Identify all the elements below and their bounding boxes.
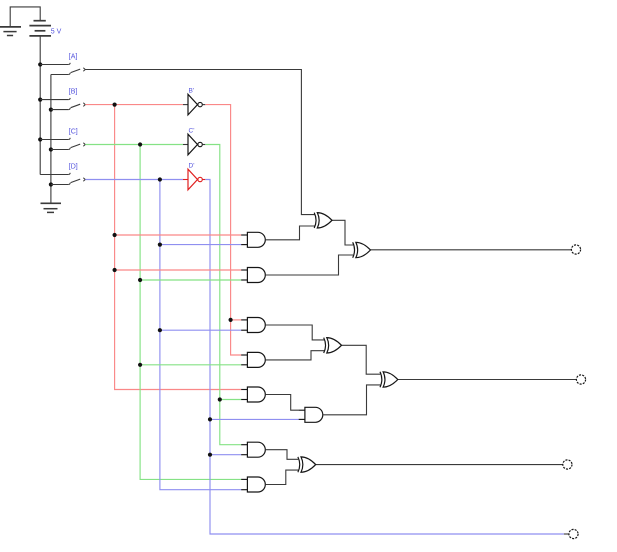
- wire XOR1 out to XOR2: [332, 220, 353, 245]
- node bus-A: [38, 62, 42, 66]
- wire C' (green) vertical: [205, 145, 241, 445]
- battery V1 5V: [29, 21, 51, 36]
- wire B (red) to inverter: [85, 104, 183, 106]
- wire AND6 out to XOR4: [323, 385, 380, 415]
- inverter C': [183, 134, 205, 155]
- wire XOR5 out to T3: [316, 464, 563, 466]
- wire XOR2 out to T1: [371, 249, 572, 251]
- AND gate U4: [247, 352, 265, 367]
- switch D: [40, 173, 85, 185]
- ground GND2: [41, 203, 62, 212]
- inverter D': [183, 169, 205, 190]
- node blue-AND7: [208, 453, 212, 457]
- switch B: [40, 98, 85, 110]
- AND gate U2: [247, 268, 265, 283]
- wire AND7 out to XOR5: [265, 450, 298, 460]
- AND gate U7: [247, 442, 265, 457]
- svg-text:B': B': [189, 87, 195, 94]
- wire red to AND1: [115, 234, 242, 236]
- wire AND2 out to XOR2: [265, 255, 353, 275]
- wire C vertical: [140, 145, 241, 480]
- wire blue D' to AND7: [210, 454, 241, 456]
- wire green to AND4: [140, 364, 241, 366]
- svg-text:[C]: [C]: [69, 129, 78, 136]
- node bus-C: [38, 137, 42, 141]
- node green-AND5: [218, 397, 222, 401]
- wire B vertical: [115, 105, 242, 390]
- ground GND1: [0, 27, 21, 36]
- switch A: [40, 63, 85, 75]
- svg-text:D': D': [189, 162, 195, 169]
- node red-AND2: [113, 268, 117, 272]
- pin stubs left AND column: [241, 235, 306, 490]
- svg-text:C': C': [189, 127, 195, 134]
- wire AND1 out to XOR1: [265, 226, 314, 240]
- wire A (black) to XOR1: [85, 70, 314, 215]
- wire ground bus: [50, 75, 52, 204]
- wire D vertical: [160, 180, 242, 490]
- AND gate U8: [247, 477, 265, 492]
- node green-AND2: [138, 278, 142, 282]
- terminal T2: [576, 375, 585, 384]
- node B-junction: [113, 103, 117, 107]
- wire blue to AND3: [160, 329, 242, 331]
- terminal T4: [569, 529, 578, 538]
- node gbus-D: [49, 182, 53, 186]
- wire XOR4 out to T2: [398, 379, 577, 381]
- wire battery to ground: [10, 7, 40, 27]
- node green-AND4: [138, 363, 142, 367]
- wire blue to AND1: [160, 244, 242, 246]
- XOR gate U10: [353, 242, 371, 257]
- wire red B' to AND3: [231, 319, 242, 321]
- AND gate U6: [305, 407, 323, 422]
- wire AND4 out to XOR3: [265, 351, 324, 360]
- svg-text:[B]: [B]: [69, 89, 78, 96]
- svg-text:5 V: 5 V: [51, 29, 62, 36]
- node C-junction: [138, 142, 142, 146]
- XOR gate U11: [324, 338, 342, 353]
- wire AND5 out to AND6: [265, 395, 299, 411]
- svg-text:[D]: [D]: [69, 164, 78, 171]
- node blue-AND3: [158, 328, 162, 332]
- node red-AND3: [229, 318, 233, 322]
- wire B' (red) vertical: [205, 105, 241, 355]
- svg-text:[A]: [A]: [69, 54, 78, 61]
- node red-AND1: [113, 233, 117, 237]
- node gbus-C: [49, 147, 53, 151]
- wire green C' to AND5: [220, 399, 242, 401]
- node blue-AND6: [208, 417, 212, 421]
- switch C: [40, 138, 85, 150]
- wire stub T4: [564, 533, 569, 535]
- wire AND3 out to XOR3: [265, 325, 324, 340]
- wire green to AND2: [140, 279, 241, 281]
- wire D' (blue) vertical to T4: [205, 180, 564, 535]
- wire +5V bus: [39, 36, 41, 175]
- node D-junction: [158, 177, 162, 181]
- wire C (green) to inverter: [85, 144, 183, 146]
- node blue-AND1: [158, 243, 162, 247]
- wire red to AND2: [115, 269, 242, 271]
- node bus-B: [38, 98, 42, 102]
- wire AND8 out to XOR5: [265, 470, 298, 484]
- node gbus-B: [49, 108, 53, 112]
- inverter B': [183, 94, 205, 115]
- AND gate U5: [247, 387, 265, 402]
- wire D (blue) to inverter: [85, 179, 183, 181]
- AND gate U1: [247, 232, 265, 247]
- XOR gate U9: [314, 213, 332, 228]
- AND gate U3: [247, 318, 265, 333]
- terminal T1: [571, 245, 580, 254]
- wire XOR3 out to XOR4: [342, 345, 381, 374]
- XOR gate U12: [380, 372, 398, 387]
- XOR gate U13: [298, 457, 316, 472]
- terminal T3: [563, 460, 572, 469]
- wire blue D' to AND6: [210, 418, 299, 420]
